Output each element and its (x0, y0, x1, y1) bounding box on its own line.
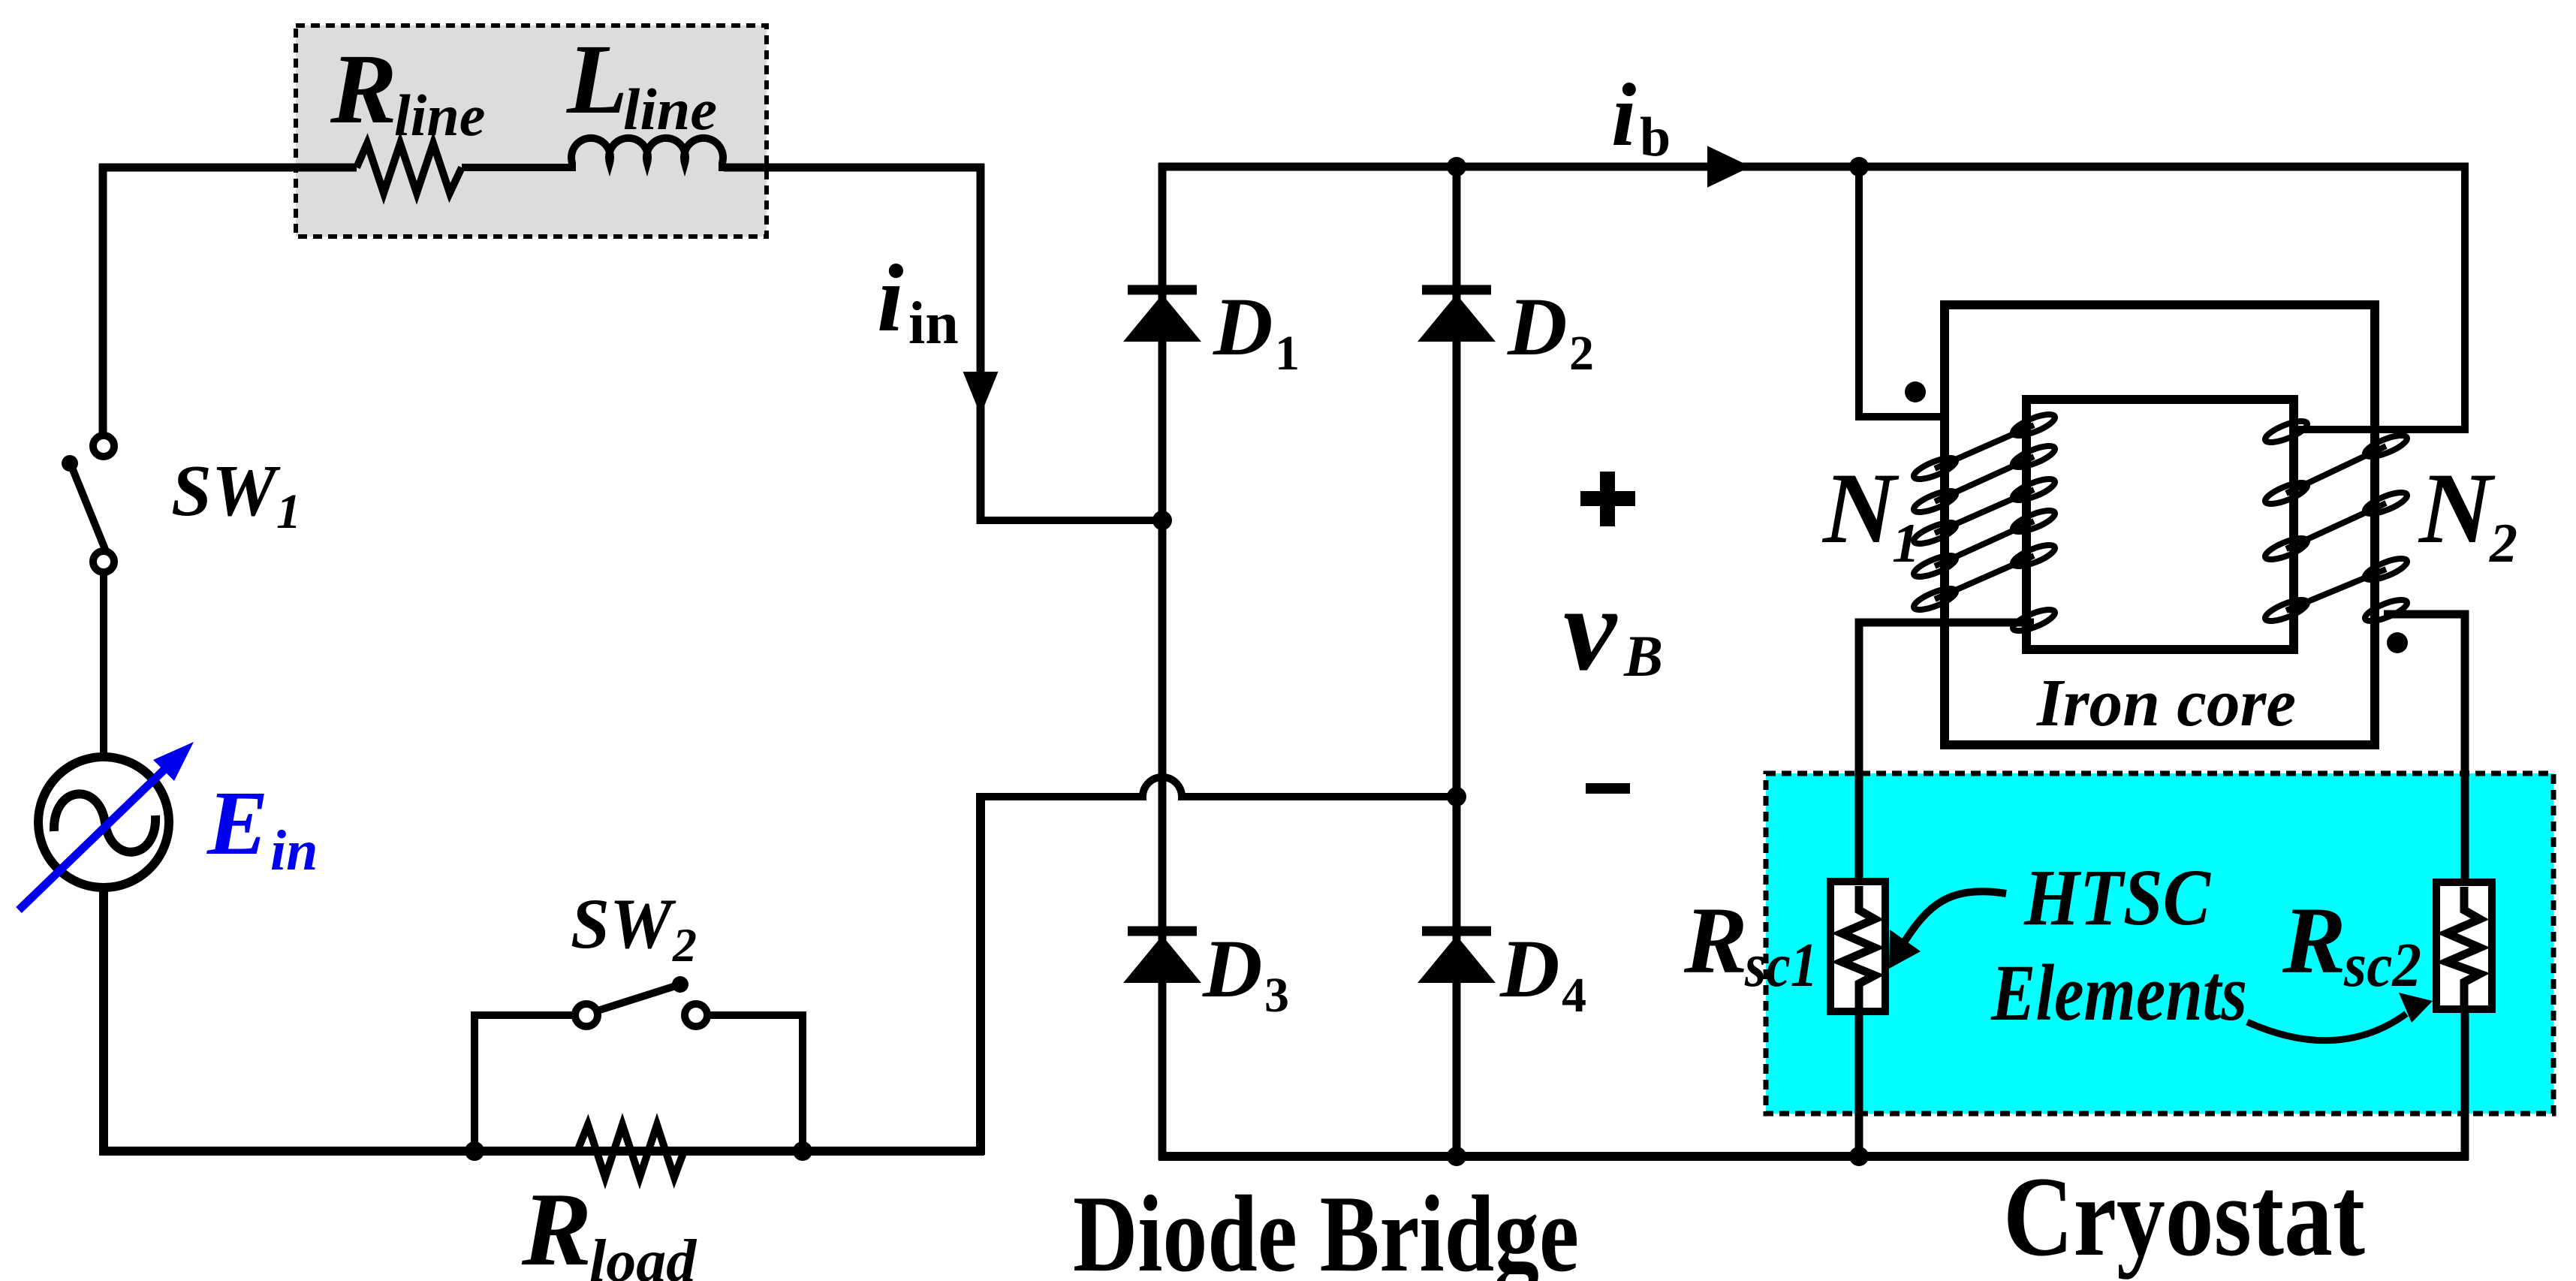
inductor L_line (571, 138, 723, 171)
svg-text:3: 3 (1264, 968, 1289, 1023)
wire R_line to L_line (462, 164, 571, 171)
line-impedance grey box (296, 26, 767, 237)
node mid right (1447, 787, 1466, 806)
svg-text:line: line (623, 77, 717, 142)
svg-text:HTSC: HTSC (2023, 854, 2211, 942)
node bottom right bridge (1447, 1147, 1466, 1166)
wire R_sc2 to bottom (2461, 1006, 2469, 1160)
svg-text:N: N (1821, 453, 1900, 565)
iron core outer (1945, 305, 2375, 745)
diode D3 (1123, 931, 1201, 983)
wire N1 exit to R_sc1 (1859, 622, 2034, 886)
svg-text:Elements: Elements (1990, 949, 2247, 1038)
mid wire with hop over left bridge leg (981, 777, 1457, 797)
svg-text:sc1: sc1 (1744, 930, 1818, 1000)
svg-text:sc2: sc2 (2343, 930, 2421, 1000)
svg-text:4: 4 (1562, 968, 1586, 1023)
svg-text:2: 2 (2489, 513, 2517, 574)
node R_load left (465, 1141, 484, 1161)
svg-text:Cryostat: Cryostat (2003, 1153, 2365, 1279)
wire source to bottom-left corner and along bottom to riser (99, 793, 984, 1155)
svg-text:R: R (1683, 888, 1748, 993)
bridge bottom wire (1158, 1152, 2469, 1161)
label + (1580, 472, 1635, 526)
diode D1 (1123, 290, 1201, 342)
svg-text:2: 2 (672, 918, 697, 972)
svg-text:SW: SW (171, 451, 281, 532)
variable arrow (blue) (19, 742, 194, 910)
svg-text:L: L (566, 23, 628, 134)
node bottom R_sc1 (1849, 1147, 1869, 1166)
svg-text:N: N (2418, 453, 2496, 565)
svg-text:D: D (1499, 923, 1559, 1014)
AC source E_in (38, 757, 169, 888)
svg-text:i: i (877, 245, 904, 351)
svg-text:b: b (1640, 107, 1671, 168)
i_in arrowhead (966, 374, 995, 409)
wire SW1 to source (100, 575, 107, 756)
svg-text:1: 1 (1892, 513, 1920, 574)
svg-text:in: in (908, 291, 959, 357)
wire L_line to i_in corner and down (724, 164, 984, 524)
svg-text:R: R (330, 33, 397, 144)
node bridge left mid (1152, 511, 1172, 530)
svg-text:load: load (589, 1228, 697, 1281)
svg-text:D: D (1507, 281, 1567, 372)
switch SW1 (62, 436, 114, 572)
svg-text:i: i (1611, 65, 1636, 164)
diode D2 (1418, 290, 1496, 342)
svg-text:D: D (1202, 923, 1262, 1014)
iron core inner (2026, 399, 2294, 650)
wire N2 exit down to R_sc2 (2384, 614, 2465, 886)
bridge left leg (1158, 163, 1167, 1160)
winding N1 (1912, 410, 2057, 634)
cryostat cyan box (1766, 773, 2553, 1114)
arrow HTSC to R_sc1 (1889, 891, 2006, 969)
svg-text:line: line (394, 83, 485, 148)
wire top node down to N1 entry (1859, 167, 1946, 417)
svg-text:1: 1 (276, 484, 301, 539)
wire top right corner down to N2 entry (2290, 163, 2465, 430)
HTSC element R_sc2 (2436, 882, 2492, 1009)
i_b arrowhead (1710, 149, 1746, 184)
svg-text:B: B (1623, 623, 1663, 689)
winding N2 (2263, 417, 2409, 625)
HTSC element R_sc1 (1830, 882, 1885, 1011)
svg-text:R: R (2282, 888, 2346, 993)
diode D4 (1418, 931, 1496, 983)
wire jog to bridge mid-left node (981, 517, 1166, 524)
resistor R_line (357, 143, 462, 193)
bridge right leg (1453, 163, 1461, 1160)
node top right bridge (1447, 157, 1466, 176)
node R_load right (793, 1141, 812, 1161)
svg-text:D: D (1213, 281, 1273, 372)
resistor R_load (577, 1125, 684, 1177)
label minus (1586, 783, 1630, 794)
polarity dot N2 (2387, 632, 2408, 653)
svg-text:SW: SW (571, 884, 676, 963)
svg-text:R: R (521, 1171, 592, 1281)
svg-text:in: in (270, 819, 318, 882)
arrow Elements to R_sc2 (2247, 993, 2433, 1041)
switch SW2 branch (475, 976, 803, 1151)
svg-text:1: 1 (1275, 326, 1300, 381)
svg-text:E: E (206, 773, 268, 874)
svg-text:v: v (1563, 562, 1618, 695)
svg-text:Iron core: Iron core (2036, 666, 2296, 740)
svg-text:2: 2 (1569, 326, 1594, 381)
wire R_sc1 to bottom (1855, 1008, 1863, 1160)
svg-text:Diode Bridge: Diode Bridge (1073, 1173, 1579, 1281)
polarity dot N1 (1905, 381, 1926, 402)
wire top-left from source to R_line (99, 164, 357, 440)
bridge top wire to transformer (1158, 163, 2469, 171)
node top N1 (1849, 157, 1869, 176)
